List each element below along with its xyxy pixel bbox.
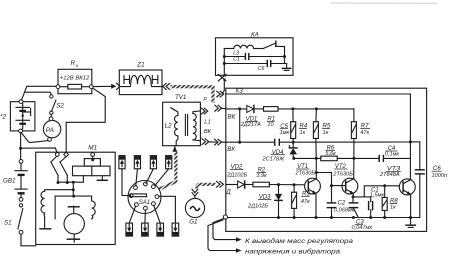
diode VD3: [247, 183, 282, 217]
KA exit crossing symbol: [218, 74, 226, 81]
resistor Rк box (+12В ВК12): [56, 60, 93, 94]
svg-text:L1: L1: [204, 120, 210, 126]
capacitor C6 1000п: [416, 166, 448, 217]
svg-text:3,9к: 3,9к: [256, 173, 267, 179]
svg-text:Д: Д: [225, 188, 231, 195]
svg-text:1к: 1к: [323, 130, 329, 136]
svg-text:S1: S1: [4, 220, 12, 227]
svg-text:S2: S2: [56, 103, 64, 110]
switch S1: [4, 204, 23, 235]
KA left internal bus: [223, 49, 226, 76]
svg-text:5,6к: 5,6к: [325, 151, 336, 157]
shielded cable K3 Д terminal to G1: [192, 181, 223, 198]
svg-text:GB1: GB1: [3, 178, 15, 185]
svg-text:ВК: ВК: [204, 129, 212, 135]
svg-text:G1: G1: [189, 218, 197, 225]
shielded cable Z1 to TV1/KA connector area: [171, 87, 214, 103]
bottom rail (common): [227, 216, 420, 219]
connector TV1 bottom lead to K3 BK2: [202, 139, 226, 145]
svg-text:TV1: TV1: [175, 94, 186, 101]
generator G1: [185, 198, 204, 225]
svg-text:1000п: 1000п: [432, 173, 448, 179]
KA inductor L3 with contact: [224, 41, 284, 56]
M1 internal node wires: [45, 176, 84, 196]
KA capacitor C1 branch: [224, 54, 286, 63]
svg-text:47к: 47к: [301, 199, 310, 205]
svg-text:КА: КА: [251, 31, 259, 38]
ignition coil TV1: [163, 94, 201, 146]
battery GB2 (*2): [0, 100, 35, 133]
switch S2: [50, 95, 65, 115]
resistor R7: [351, 122, 370, 159]
transistor VT2: [332, 158, 357, 197]
svg-text:2Д102Б: 2Д102Б: [247, 203, 268, 209]
capacitor C3: [349, 195, 372, 230]
svg-text:R: R: [71, 60, 76, 67]
svg-text:0,047мк: 0,047мк: [352, 225, 373, 231]
starter motor M1 box: [36, 144, 116, 244]
M1 relay contacts: [51, 157, 69, 185]
svg-text:р: р: [203, 96, 207, 102]
spark plug connector 6 (bottom row): [142, 210, 149, 236]
breaker unit KA box: [216, 31, 294, 75]
filter Z1: [119, 61, 162, 94]
terminal labels on K3 left edge: [225, 114, 235, 196]
M1 brush frame: [55, 195, 92, 219]
spark plug connector 3 (top row): [146, 156, 157, 184]
svg-text:2Д102Б: 2Д102Б: [226, 172, 247, 178]
resistor R2: [253, 168, 305, 187]
VT1 collector jog to VT2 base: [315, 171, 345, 187]
top rail wire (KA input): [226, 94, 411, 142]
zener VD4: [262, 142, 298, 162]
HV shielded cable TV1 to distributor rotor: [147, 146, 177, 195]
battery GB1: [3, 160, 27, 202]
M1 solenoid windings: [73, 156, 111, 180]
svg-text:С1: С1: [233, 56, 240, 62]
svg-text:1к: 1к: [300, 130, 306, 136]
spark plug connector 1 (top row): [119, 156, 130, 196]
svg-text:10: 10: [267, 122, 274, 128]
spark plug connector 5 (bottom row): [126, 206, 136, 236]
svg-text:47к: 47к: [360, 130, 369, 136]
electronic unit K3 box: [226, 88, 427, 231]
Д input wire: [226, 184, 238, 186]
M1 field winding right: [92, 201, 96, 219]
faint scan artifact line top right: [331, 2, 437, 5]
wire KA down to K3 top rail with connector: [217, 81, 225, 97]
svg-text:ВК: ВК: [228, 114, 236, 121]
wire S2 to PA: [50, 114, 52, 116]
resistor R4: [291, 122, 308, 141]
transistor VT3: [379, 167, 415, 218]
resistor R8: [382, 186, 398, 218]
svg-text:С6: С6: [258, 66, 265, 72]
svg-text:С2: С2: [338, 201, 346, 207]
svg-text:+12В ВК12: +12В ВК12: [60, 76, 90, 82]
svg-text:0,1мк: 0,1мк: [385, 152, 400, 158]
BK1 input wire: [226, 107, 247, 142]
svg-text:SA1: SA1: [139, 200, 150, 206]
svg-text:*2: *2: [0, 114, 6, 121]
wire battery minus down to GB1 and to M1: [19, 133, 57, 160]
capacitor C1: [364, 187, 384, 217]
distributor SA1: [128, 181, 161, 214]
resistor R6: [321, 145, 338, 160]
svg-text:2Т630Б: 2Т630Б: [332, 171, 353, 177]
wire rail descent to VT3 collector and C6 branch: [410, 142, 419, 179]
spark plug connector 8 (bottom row): [159, 196, 179, 236]
mass terminal node and arrows to note text: [208, 215, 242, 253]
diode VD1: [240, 105, 264, 128]
svg-text:2Д217А: 2Д217А: [240, 122, 261, 128]
connector TV1 top lead to K3 BK1: [202, 105, 226, 114]
diode VD2: [226, 165, 253, 189]
wire Rк to Z1 with arrow: [93, 83, 169, 89]
transistor VT1: [295, 158, 321, 217]
M1 armature motor: [64, 206, 84, 242]
wire W1 BK2 input: [226, 140, 412, 143]
svg-text:2Т848А: 2Т848А: [379, 172, 400, 178]
ground KA: [286, 64, 288, 69]
wire VD4 to R6 to C4 (mid rail): [294, 157, 411, 160]
supply wire R1 to R4 R5 R7 tops: [291, 107, 354, 121]
KA capacitor C6 branch with ground: [224, 57, 290, 73]
svg-text:PA: PA: [46, 127, 54, 134]
node A (R4/VD4/C5 junction): [292, 141, 295, 144]
svg-text:1мк: 1мк: [280, 130, 290, 136]
spark plug connector 4 (top row): [155, 156, 172, 186]
ground at VT3 emitter: [406, 216, 415, 227]
spark plug connector 2 (top row): [134, 156, 140, 186]
svg-text:L2: L2: [165, 122, 172, 129]
svg-text:Z1: Z1: [136, 61, 144, 68]
note text: К выводам масс регулятора напряжения и вибратора: [245, 237, 354, 256]
capacitor C2: [327, 186, 354, 218]
capacitor C4: [379, 146, 399, 161]
svg-text:напряжения и вибратора: напряжения и вибратора: [245, 247, 341, 255]
resistor R5: [313, 122, 330, 159]
labels L1 and BK right of TV1: [204, 120, 212, 136]
svg-text:M1: M1: [88, 144, 97, 151]
svg-text:2Т630Б: 2Т630Б: [295, 170, 316, 176]
VT2 emitter wire to VT3 base: [353, 184, 400, 197]
svg-text:К выводам масс регулятора: К выводам масс регулятора: [245, 237, 354, 245]
M1 field winding left: [40, 191, 51, 229]
wire Rк right terminal down to M1 diamond: [66, 88, 105, 152]
svg-text:2С178Ж: 2С178Ж: [262, 157, 285, 163]
spark plug connector 7 (bottom row): [154, 206, 164, 237]
capacitor C5: [275, 124, 290, 145]
ground M1 armature: [73, 234, 75, 239]
resistor R3: [292, 183, 311, 217]
svg-text:ВК: ВК: [227, 146, 235, 153]
wire S1 to M1 box bottom: [21, 234, 36, 246]
wire battery+ up to Rк and S2 branch: [22, 86, 57, 100]
wire PA minus to battery minus: [21, 133, 48, 143]
ammeter PA: [43, 117, 60, 142]
svg-text:1к: 1к: [390, 204, 396, 210]
resistor R1: [264, 107, 293, 128]
ground M1 solenoid: [101, 176, 103, 180]
